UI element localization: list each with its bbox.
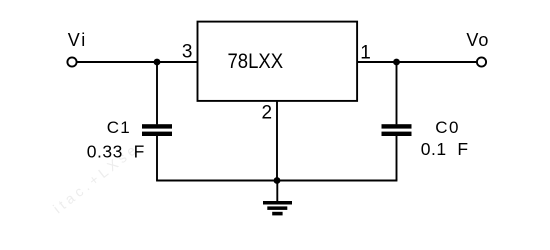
node output junction	[393, 59, 400, 66]
regulator U1 78LXX	[198, 22, 358, 101]
svg-text:C1: C1	[107, 118, 131, 137]
wire C1 top	[156, 62, 158, 124]
svg-text:Vi: Vi	[68, 30, 87, 50]
wire output	[357, 61, 477, 63]
watermark	[50, 142, 139, 216]
terminal Vo	[477, 57, 486, 66]
svg-text:0.1 F: 0.1 F	[421, 139, 469, 159]
wire input	[77, 61, 198, 63]
wire C0 bottom	[396, 136, 398, 181]
svg-text:1: 1	[360, 43, 371, 64]
terminal Vi	[67, 57, 76, 66]
svg-text:Vo: Vo	[466, 30, 489, 50]
capacitor C0	[382, 124, 412, 136]
svg-text:78LXX: 78LXX	[228, 49, 284, 73]
svg-text:C0: C0	[435, 118, 460, 137]
svg-text:2: 2	[262, 102, 273, 123]
svg-text:3: 3	[182, 41, 193, 62]
wire ground stub	[276, 181, 278, 202]
wire C1 bottom	[156, 136, 158, 181]
wire pin2	[276, 101, 278, 181]
wire C0 top	[396, 62, 398, 124]
ground	[263, 201, 292, 215]
svg-text:0.33 F: 0.33 F	[87, 141, 145, 161]
wire bottom rail	[156, 180, 397, 182]
node ground junction	[274, 177, 281, 184]
capacitor C1	[142, 124, 172, 136]
node input junction	[154, 59, 161, 66]
